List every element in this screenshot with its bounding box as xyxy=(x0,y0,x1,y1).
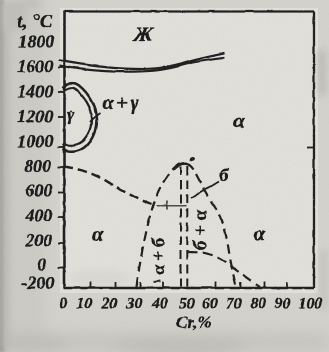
scan smudges xyxy=(70,50,327,310)
small tick on tie line xyxy=(166,200,168,210)
axis frame xyxy=(63,11,314,288)
top border xyxy=(64,10,314,12)
y-axis xyxy=(63,11,66,288)
alpha+gamma pointer line xyxy=(90,113,101,122)
stray ink dot above gamma xyxy=(70,110,72,112)
gamma loop outer boundary xyxy=(63,83,97,152)
liquidus curve xyxy=(59,53,225,69)
solidus curve xyxy=(59,57,224,71)
lower right dashed boundary xyxy=(187,252,260,287)
y-axis labels xyxy=(17,11,54,293)
x-axis xyxy=(63,286,314,289)
x-axis labels xyxy=(59,295,322,332)
dark scanned left edge xyxy=(0,0,4,352)
horizontal tie line at 600C xyxy=(156,204,186,206)
dot above dome peak xyxy=(189,156,195,161)
sigma dome boundary (alpha+sigma / sigma+alpha) xyxy=(136,163,236,287)
right border xyxy=(312,11,314,288)
small stray dash under rotated label xyxy=(153,281,160,282)
y-axis tick marks xyxy=(58,67,314,268)
long dashed alpha solubility curve xyxy=(63,166,154,205)
gamma loop inner boundary xyxy=(63,88,92,146)
sigma region right vertical dashed line xyxy=(186,166,188,286)
sigma region left vertical dashed line xyxy=(180,166,182,286)
x-axis tick marks xyxy=(90,282,287,288)
dome apex cap stroke xyxy=(174,163,190,169)
sigma pointer line xyxy=(191,181,219,198)
